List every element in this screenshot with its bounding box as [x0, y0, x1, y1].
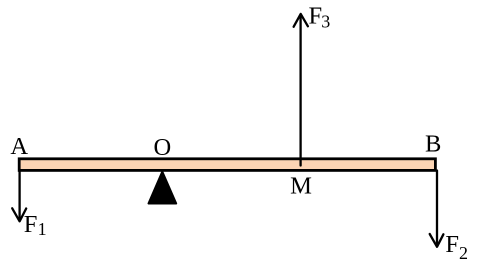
svg-text:M: M: [290, 172, 312, 199]
svg-text:F: F: [24, 211, 38, 238]
svg-text:1: 1: [38, 219, 47, 239]
force F1 arrow (downward at A): [12, 171, 26, 222]
svg-text:2: 2: [459, 243, 468, 263]
svg-text:B: B: [425, 130, 441, 157]
svg-text:3: 3: [321, 12, 330, 32]
force F3 arrow (upward at M): [294, 14, 308, 166]
fulcrum triangle: [149, 172, 177, 204]
svg-text:F: F: [445, 231, 459, 258]
force F2 arrow (downward at B): [430, 171, 444, 247]
svg-text:A: A: [10, 133, 28, 160]
svg-text:F: F: [309, 3, 323, 30]
svg-text:O: O: [153, 134, 171, 161]
lever beam: [19, 159, 435, 171]
